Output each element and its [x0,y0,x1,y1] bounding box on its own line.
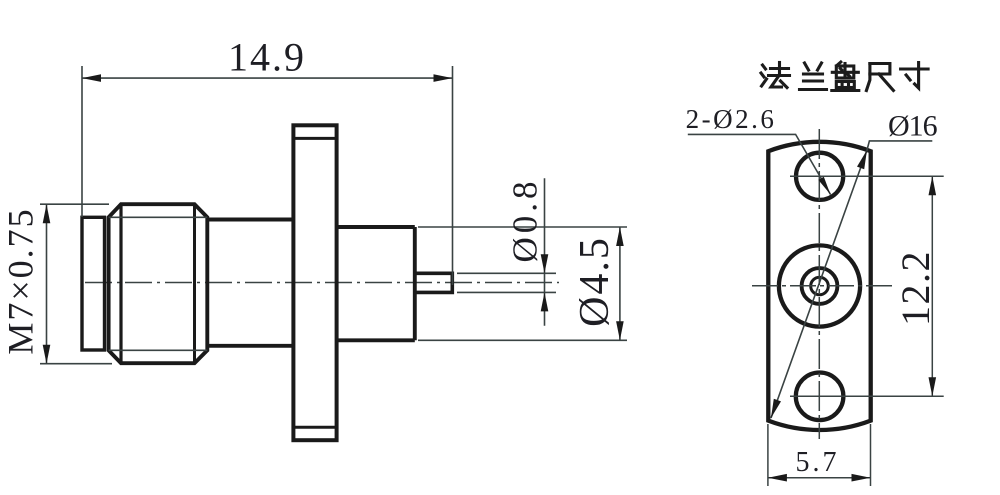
svg-text:14.9: 14.9 [228,35,306,80]
svg-text:Ø4.5: Ø4.5 [572,236,618,327]
svg-text:5.7: 5.7 [796,447,840,478]
svg-text:Ø16: Ø16 [888,110,938,143]
svg-text:2-Ø2.6: 2-Ø2.6 [686,104,777,134]
svg-text:Ø0.8: Ø0.8 [506,177,545,262]
svg-text:M7×0.75: M7×0.75 [1,207,41,354]
svg-text:12.2: 12.2 [893,250,938,326]
